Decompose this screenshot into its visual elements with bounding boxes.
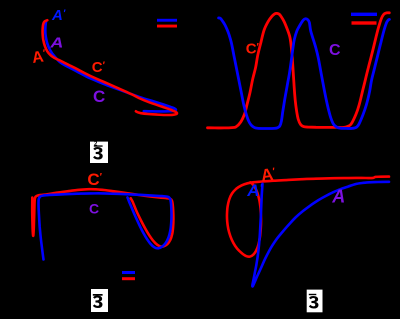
x-axis label box (epsilon2 bar, mirrored) (90, 138, 108, 164)
legend blue line (157, 19, 177, 22)
curve blue C (oscillation) (219, 18, 390, 129)
svg-text:C: C (89, 201, 99, 217)
svg-text:A: A (49, 35, 63, 52)
legend red line (352, 21, 377, 24)
curve red A' (loop + line) (227, 177, 389, 257)
curve blue A (252, 182, 389, 287)
legend red line (122, 277, 135, 280)
curve red C' (top-left spiral) (43, 20, 177, 115)
svg-text:ε: ε (92, 287, 103, 313)
svg-text:C: C (93, 87, 105, 106)
legend red line (157, 25, 177, 28)
x-axis label box (epsilon bar, mirrored) (91, 287, 108, 313)
curve red C' (32, 189, 173, 246)
svg-text:C: C (329, 42, 341, 59)
legend blue line (351, 13, 377, 16)
svg-text:A: A (331, 186, 345, 206)
curve red C' (oscillation) (208, 13, 390, 128)
x-axis label box (epsilon bar, mirrored) (307, 287, 323, 313)
legend blue line (122, 271, 135, 274)
curve blue C (top-left spiral) (45, 21, 176, 111)
curve blue C (39, 193, 172, 259)
svg-text:ε: ε (308, 287, 319, 313)
